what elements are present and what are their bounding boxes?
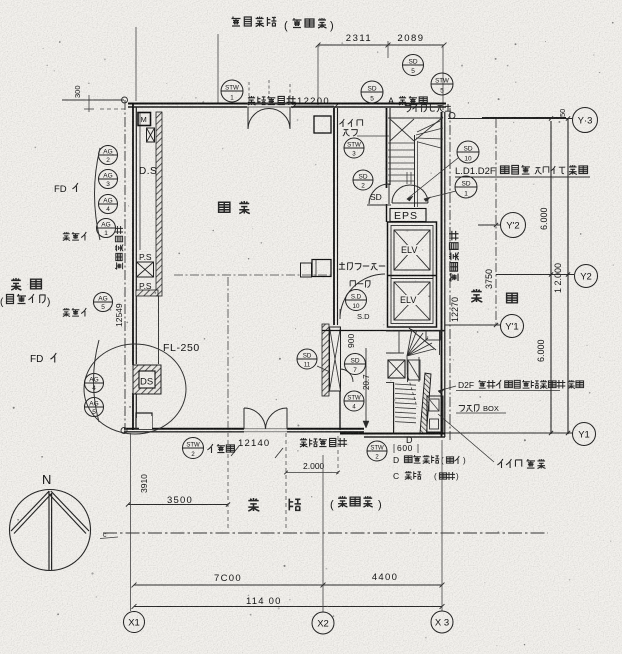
shutter STW2 left	[183, 438, 204, 459]
dim line 2000	[286, 472, 338, 474]
PS bottom hatch	[136, 290, 158, 296]
hall bottom wall	[322, 330, 445, 332]
Y dim line inner	[550, 121, 552, 434]
Y dim line outer	[567, 118, 569, 434]
wall bottom stair part	[340, 433, 445, 435]
north arrow chevrons	[11, 491, 49, 531]
X dim line 7000/4400	[134, 584, 442, 586]
windbreak label rule	[357, 135, 389, 137]
text road (doro) bottom	[248, 498, 259, 511]
underline water heater	[456, 390, 560, 392]
text pull box katakana	[459, 405, 479, 412]
road centerline dash-dot	[103, 532, 548, 534]
text elevator katakana	[339, 262, 385, 270]
wall left	[132, 103, 134, 365]
shutter STW2 right	[367, 441, 387, 461]
text neighbour lot (tonari-chi)	[11, 278, 21, 290]
DS box lower hatched	[133, 365, 161, 394]
stair flight boundary lines	[406, 356, 409, 382]
shutter STW1	[221, 80, 243, 102]
FL-250 cloud ellipse	[84, 344, 186, 434]
dash-dot line vertical in shop	[227, 277, 229, 428]
door SD5 top	[403, 55, 424, 76]
top dimension line 2311/2089	[318, 44, 444, 46]
lower stair winder fan	[407, 329, 412, 356]
text 12200 with road boundary label	[248, 96, 296, 105]
shop entrance double door top	[248, 107, 269, 129]
gridline Y'1	[445, 324, 501, 326]
site boundary dash-dot line right	[449, 108, 451, 440]
leader from SD1 to stair	[424, 191, 456, 199]
elevator car 2 box with X	[394, 282, 430, 320]
underline pull box	[456, 412, 506, 414]
air grille AG1	[97, 219, 116, 238]
bracket for lower FD group	[94, 340, 100, 422]
road line top-left	[62, 99, 124, 101]
text shop (tenpo)	[219, 202, 230, 212]
door SD11	[297, 349, 317, 369]
door SD7	[345, 354, 366, 375]
lower stair treads	[395, 384, 416, 385]
text sign electric (sain denshoku)	[497, 459, 521, 468]
bracket for upper AG group	[95, 148, 101, 240]
stair west wall lower	[393, 382, 395, 433]
extension dash x228	[227, 433, 229, 530]
grid bubble X2	[312, 612, 334, 634]
M box in shaft	[138, 113, 151, 126]
text 'front road' (zenmen-doro)	[232, 17, 277, 27]
leader SD11	[317, 366, 330, 372]
vertical dim 300	[88, 95, 90, 112]
door SD5 second	[361, 81, 383, 103]
extension x323 to X2	[322, 455, 324, 612]
corner marker circle	[122, 97, 128, 103]
north arrow vertical shaft	[48, 491, 50, 570]
corridor hatched wall lower	[322, 324, 329, 396]
dim line 3500	[128, 504, 228, 506]
door sill lines top	[247, 103, 291, 105]
grid bubble Y2	[575, 265, 598, 288]
lower stair side boxes	[427, 396, 443, 432]
hall door arc	[340, 274, 385, 319]
aux dim line x=496	[495, 119, 497, 326]
PS duct box with X	[137, 262, 154, 277]
stair west wall	[386, 108, 388, 188]
corner marker top-right	[449, 113, 455, 119]
wind lobby east wall with arrow dim	[365, 348, 367, 428]
door SD2	[353, 170, 373, 190]
stair shaft box with X	[388, 360, 405, 378]
stair door sill line	[367, 204, 391, 206]
grid bubble X1	[124, 612, 145, 633]
air grille AG4 lower	[85, 374, 104, 393]
hall closet boxes	[301, 263, 312, 277]
site boundary label right vertical	[449, 231, 459, 282]
extension line above wall x=136	[135, 27, 137, 101]
dome center ticks	[406, 172, 408, 184]
text damper note 2	[63, 308, 86, 317]
air grille AG3	[99, 170, 118, 189]
grid bubble Y1	[573, 423, 596, 446]
left wall inner line mid	[158, 296, 160, 364]
grid bubble Y'1	[501, 315, 524, 338]
leader from SD10 to stair	[407, 158, 458, 199]
stair landing dome arc	[392, 185, 428, 203]
wall top	[128, 103, 446, 105]
shutter STW5	[431, 73, 453, 95]
EPS box	[390, 209, 426, 222]
door sill lines bottom	[244, 428, 287, 430]
X total dim line 11400	[134, 606, 442, 608]
door SD10 hall	[346, 290, 367, 311]
fan landing rect	[426, 331, 440, 340]
stair entry door arc	[369, 184, 389, 204]
gridline Y3	[448, 118, 572, 120]
text hall katakana	[350, 281, 370, 288]
dim extension line right	[442, 45, 444, 110]
sign box under top wall	[314, 116, 331, 133]
dashed wall line extension left	[100, 108, 128, 110]
leader water heater arrow	[438, 386, 456, 391]
text ELV 2	[400, 295, 423, 305]
gridline Y2	[496, 274, 574, 276]
air grille AG2	[99, 146, 118, 165]
dash-dot line horizontal in shop	[174, 274, 333, 276]
air grille AG5 lower	[85, 398, 104, 417]
text damper note 1	[63, 232, 86, 241]
small duct box right	[408, 360, 420, 380]
elevator mid wall	[388, 275, 437, 277]
extension x442 to X3	[441, 440, 443, 611]
lower stair top edge	[386, 330, 445, 332]
corridor west wall upper	[333, 108, 335, 325]
leader to sign denso	[438, 414, 494, 462]
stair center stringer	[414, 135, 416, 207]
extension below wall x136	[130, 433, 132, 611]
air grille AG4	[99, 195, 118, 214]
door SD10 right	[457, 141, 479, 163]
extension dash x285	[285, 433, 287, 530]
fan outer boundary diagonal	[409, 328, 436, 350]
air grille AG5	[94, 293, 113, 312]
north arrow circle	[10, 490, 91, 571]
landing edge line	[386, 352, 404, 354]
wall right	[441, 112, 443, 437]
stair top edge line	[388, 117, 443, 119]
text penthouse katakana	[405, 104, 451, 112]
gridline Y'2	[478, 224, 501, 226]
site boundary dash-dot line left	[124, 100, 126, 433]
dim extension line left	[317, 45, 319, 105]
DS shaft right wall hatched	[156, 112, 162, 296]
grid bubble Y3	[573, 108, 598, 133]
lobby door arc	[340, 369, 353, 382]
door SD1 right	[455, 176, 477, 198]
wall bottom left part	[124, 428, 244, 430]
duct box with X	[147, 128, 155, 142]
shutter STW3	[344, 138, 364, 158]
elevator car 1 box with X	[394, 230, 430, 270]
shutter STW4	[344, 391, 364, 411]
grid bubble Y'2	[501, 213, 526, 238]
gridline Y1	[445, 432, 573, 434]
shutter tall box with X	[330, 327, 341, 391]
hatched slanted stair wall	[420, 373, 431, 433]
DS shaft inner line	[139, 112, 141, 250]
small box at wall bottom	[136, 413, 152, 429]
dashes above door posts	[248, 82, 250, 104]
text ELV 1	[400, 245, 423, 255]
corner marker bottom-left	[121, 428, 127, 434]
text tonari-chi right	[471, 289, 482, 302]
grid bubble X3	[431, 611, 453, 633]
text tatami note	[207, 444, 234, 453]
text sign (sain)	[339, 119, 362, 127]
elevator shaft outer walls	[388, 222, 437, 327]
dim extension line mid	[387, 41, 389, 58]
shop exit double door bottom	[244, 408, 266, 429]
underline outdoor unit yard	[455, 176, 590, 178]
stair top landing diagonals	[390, 119, 414, 141]
underline for 12200	[294, 105, 334, 107]
extension line above wall x=218	[217, 34, 219, 103]
upper stair treads	[388, 142, 415, 144]
corridor wall stub below	[339, 391, 341, 430]
text road boundary bottom	[300, 438, 347, 447]
